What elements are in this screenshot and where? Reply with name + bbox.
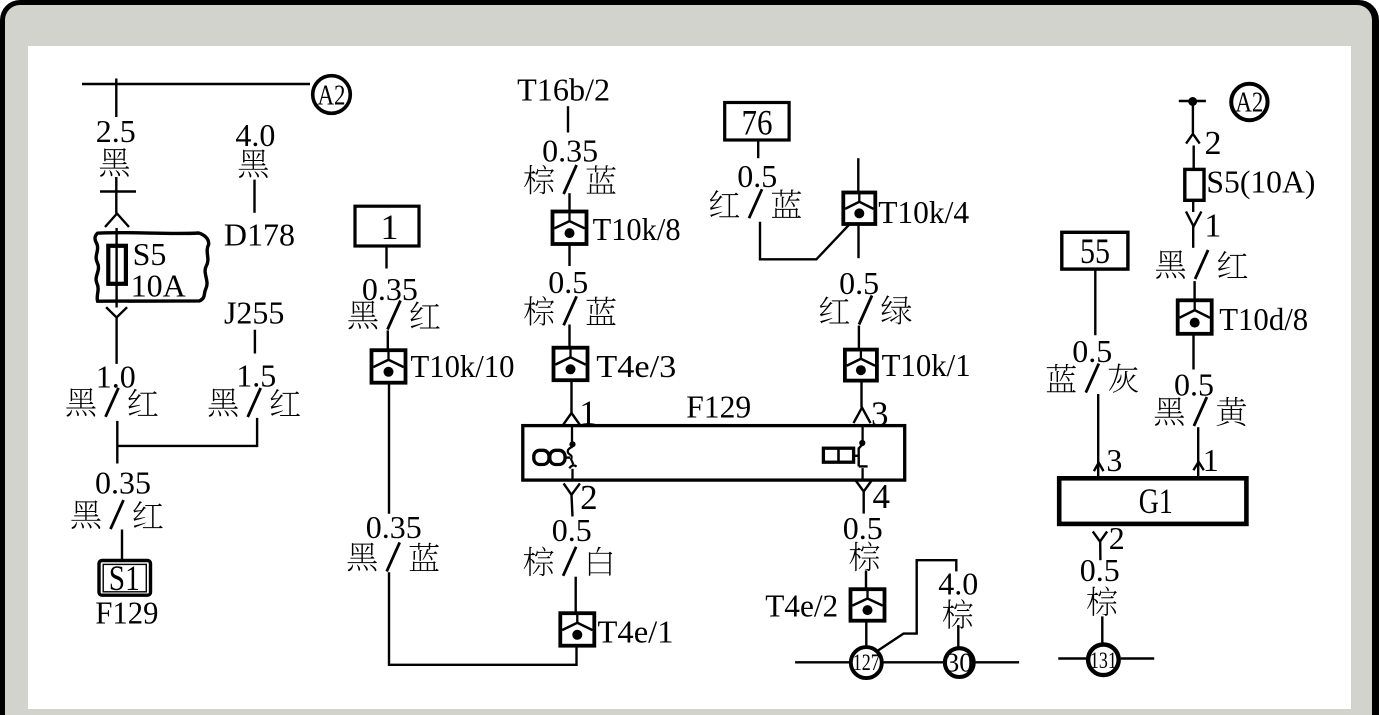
svg-text:T16b/2: T16b/2: [517, 72, 610, 108]
svg-text:4.0: 4.0: [235, 117, 275, 153]
svg-text:1: 1: [1203, 442, 1219, 478]
connector arrow down 1: [1186, 212, 1201, 227]
F129 internal pressure symbol (two circles): [534, 450, 549, 464]
svg-text:T10d/8: T10d/8: [1219, 301, 1308, 337]
svg-text:A2: A2: [1235, 88, 1263, 119]
wire to ground 30: [957, 625, 959, 646]
svg-text:T10k/1: T10k/1: [882, 347, 971, 383]
color 棕 (brown): [850, 541, 880, 571]
ground terminal 30: [945, 648, 974, 677]
wire junction crossbar: [117, 445, 257, 447]
fuse S5 element: [108, 246, 126, 284]
wire with break crossbar: [115, 177, 117, 214]
terminal box 1: [355, 206, 419, 246]
connector T4e/1: [560, 613, 594, 646]
wire bus A2 (top-left): [82, 83, 310, 85]
wire: [865, 571, 867, 590]
color 黑/红 (black/red): [66, 388, 96, 416]
color 棕 (brown): [1087, 586, 1117, 616]
color 棕/蓝 (brown/blue): [524, 165, 554, 195]
wire: [254, 330, 256, 354]
connector T10k/1: [845, 350, 877, 381]
wire: [385, 246, 387, 269]
svg-text:2.5: 2.5: [96, 113, 136, 149]
pin chevron 3: [854, 408, 871, 424]
wire bottom dogleg to T4e/1: [389, 572, 577, 665]
svg-text:10A: 10A: [131, 267, 186, 303]
wire to junction: [256, 418, 258, 447]
F129 internal contact squiggle (left): [568, 447, 574, 465]
wire: [1101, 616, 1103, 643]
connector T10d/8: [1178, 300, 1212, 334]
svg-text:30: 30: [946, 647, 973, 677]
wire to S1: [121, 530, 123, 561]
svg-text:0.5: 0.5: [1072, 333, 1112, 369]
color 黑 (black): [239, 149, 269, 177]
color 红/绿 (red/green): [820, 296, 849, 323]
wire: [1193, 281, 1195, 300]
svg-text:A2: A2: [318, 80, 346, 111]
ground terminal 127: [851, 647, 882, 678]
switch S1 box: [99, 561, 151, 596]
svg-text:0.5: 0.5: [552, 512, 592, 548]
pin chevron 2 (G1): [1093, 532, 1107, 542]
svg-text:0.5: 0.5: [1174, 366, 1214, 402]
component F129 A/C pressure switch box: [523, 426, 905, 481]
wire: [1192, 146, 1194, 170]
wire: [387, 330, 389, 350]
color 黑 (black): [100, 148, 130, 176]
svg-text:T4e/2: T4e/2: [765, 588, 838, 624]
wire 0.35 black/blue (long): [388, 383, 390, 514]
svg-text:T4e/1: T4e/1: [598, 613, 674, 649]
node A2 (right): [1231, 84, 1267, 120]
svg-text:1: 1: [381, 207, 399, 247]
wire: [575, 577, 577, 614]
terminal box 76: [725, 103, 789, 141]
color 黑/红 (black/red): [71, 500, 101, 528]
svg-text:3: 3: [871, 394, 889, 433]
node A2 (left): [313, 76, 351, 114]
svg-text:127: 127: [853, 650, 880, 675]
pin chevron 1: [563, 413, 579, 425]
wire pin 1: [570, 380, 572, 413]
wire stub above T10k/4: [857, 158, 859, 193]
wire dogleg to T10k/4: [760, 222, 851, 259]
svg-text:G1: G1: [1139, 481, 1173, 521]
connector arrow down: [106, 307, 127, 317]
ground bus line: [795, 661, 849, 663]
svg-text:1.0: 1.0: [96, 358, 136, 394]
svg-text:76: 76: [742, 102, 773, 142]
wire: [568, 325, 570, 349]
color 蓝/灰 (blue/gray): [1047, 364, 1076, 392]
svg-text:2: 2: [1205, 125, 1222, 162]
svg-text:0.5: 0.5: [548, 264, 588, 300]
svg-text:S5(10A): S5(10A): [1206, 163, 1315, 199]
connector T10k/8: [553, 212, 587, 245]
wire top junction with dot: [1179, 100, 1206, 102]
wire: [857, 224, 859, 258]
pin chevron 3 (G1): [1094, 463, 1104, 471]
wire to G1 pin 3: [1097, 394, 1099, 478]
color 黑/红 (black/red): [208, 388, 238, 416]
svg-text:F129: F129: [95, 594, 158, 630]
wire pin 3: [860, 380, 862, 407]
svg-text:0.35: 0.35: [366, 509, 422, 545]
color 红/蓝 (red/blue): [710, 190, 739, 217]
F129 internal wire pin3 and junction dot: [861, 427, 863, 441]
wire: [253, 180, 255, 213]
wire 1.0 black/red: [115, 318, 117, 364]
color 黑/红 (black/red): [1156, 250, 1186, 278]
svg-text:2: 2: [1109, 520, 1125, 556]
connector arrow up: [105, 214, 129, 228]
svg-text:0.35: 0.35: [542, 133, 598, 169]
pin chevron 4: [855, 480, 872, 492]
ground bus line: [1058, 657, 1086, 659]
color 棕 (brown): [943, 599, 973, 629]
terminal box 55: [1062, 232, 1128, 269]
svg-text:D178: D178: [224, 217, 295, 253]
ground terminal 131: [1088, 645, 1119, 676]
svg-text:4.0: 4.0: [938, 565, 978, 601]
pin chevron 1 (G1): [1193, 462, 1203, 470]
wire: [1192, 334, 1194, 369]
connector T4e/3: [554, 348, 588, 381]
svg-text:3: 3: [1106, 442, 1122, 478]
wire: [865, 621, 867, 646]
svg-text:0.35: 0.35: [95, 464, 151, 500]
F129 internal contact bar (right): [859, 445, 863, 467]
connector T4e/2: [851, 589, 885, 621]
color 棕/白 (brown/white): [524, 546, 554, 576]
svg-text:T4e/3: T4e/3: [596, 348, 676, 384]
connector arrow up: [1186, 134, 1200, 144]
svg-text:0.35: 0.35: [362, 271, 418, 307]
svg-text:0.5: 0.5: [737, 158, 777, 194]
color 黑/红 (black/red): [348, 301, 378, 329]
generator G1 box: [1059, 478, 1246, 524]
svg-text:1: 1: [1204, 208, 1221, 245]
svg-text:0.5: 0.5: [839, 265, 879, 301]
svg-text:55: 55: [1080, 231, 1110, 271]
color 黑/黄 (black/yellow): [1155, 397, 1185, 425]
svg-text:F129: F129: [686, 389, 751, 425]
wire: [567, 106, 569, 132]
fuse S5(10A) element: [1185, 169, 1204, 200]
svg-text:J255: J255: [224, 295, 284, 331]
color 棕/蓝 (brown/blue): [524, 296, 554, 326]
wire: [757, 140, 759, 158]
svg-text:T10k/8: T10k/8: [593, 211, 681, 247]
pin chevron 2: [564, 483, 580, 494]
wire: [568, 193, 570, 213]
wire to G1 pin 1: [1197, 427, 1199, 478]
wire: [1192, 200, 1194, 212]
svg-text:0.5: 0.5: [843, 510, 883, 546]
connector T10k/4: [843, 193, 875, 225]
wire: [858, 326, 860, 351]
wire: [1094, 269, 1096, 335]
svg-text:1.5: 1.5: [236, 358, 276, 394]
svg-text:T10k/4: T10k/4: [878, 194, 969, 230]
wire 4.0 brown hook from 127: [878, 560, 956, 650]
F129 internal wire pin1 and junction dot: [571, 427, 573, 442]
fuse S5 housing (wavy box): [95, 233, 209, 302]
svg-text:T10k/10: T10k/10: [411, 348, 515, 384]
svg-text:0.5: 0.5: [1080, 552, 1120, 588]
svg-text:S1: S1: [109, 558, 140, 598]
color 黑/蓝 (black/blue): [347, 543, 377, 571]
wire: [568, 244, 570, 266]
wire: [1192, 226, 1194, 247]
connector T10k/10: [372, 350, 406, 383]
svg-text:131: 131: [1090, 648, 1117, 674]
wire to junction: [116, 421, 118, 464]
F129 internal contact rectangles: [823, 448, 853, 462]
wire through fuse: [115, 228, 117, 308]
